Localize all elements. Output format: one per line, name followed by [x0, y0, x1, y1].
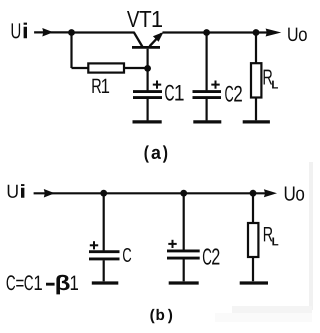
VT1 base bar — [132, 46, 160, 49]
C2 polarity plus sign — [211, 84, 219, 86]
junction dot: C2 node (a) — [203, 29, 210, 36]
caption (a) — [145, 145, 168, 162]
VT1 emitter arrowhead (NPN, pointing out) — [153, 32, 164, 42]
wire: R1 branch vertical from node A — [70, 33, 72, 69]
arrowhead: output Uo (a) — [266, 29, 282, 37]
label C1 — [165, 85, 184, 101]
C2 bottom plate — [193, 96, 222, 99]
junction dot: C node (b) — [100, 190, 107, 197]
label VT1 — [127, 11, 162, 27]
net label Uo (output, circuit b) — [285, 187, 304, 201]
C2(b) bottom lead — [183, 260, 185, 282]
wire: input rail (b) — [34, 192, 266, 194]
capacitor C (polarized, b) — [89, 241, 120, 281]
C top plate — [89, 250, 120, 253]
label C (b) — [123, 248, 131, 262]
wire: C2 top lead (a) — [206, 33, 208, 91]
wire: RL bottom lead (b) — [252, 257, 254, 281]
C2(b) bottom plate — [167, 257, 200, 260]
C1 bottom lead — [147, 99, 149, 120]
wire: R1 right pin to node B — [124, 67, 148, 69]
net label Ui (input, circuit b) — [8, 184, 25, 198]
label C2 (b) — [203, 248, 220, 264]
VT1 collector lead — [134, 32, 143, 46]
ground: RL (b) — [240, 281, 268, 284]
C1 polarity plus sign — [153, 84, 161, 86]
C2(b) top plate — [167, 249, 200, 252]
wire: RL bottom lead (a) — [255, 98, 257, 121]
ground: C2 (b) — [169, 281, 199, 284]
wire: C top lead (b) — [103, 193, 105, 250]
C2 bottom lead — [206, 99, 208, 120]
wire: R1 branch horizontal to R1 left pin — [72, 67, 89, 69]
net label Uo (output, circuit a) — [288, 28, 307, 41]
wire: top rail, node A to VT1 collector — [72, 31, 135, 33]
junction dot: C2 node (b) — [180, 190, 187, 197]
resistor R1 — [88, 63, 124, 72]
ground: C2 (a) — [193, 120, 221, 123]
C bottom lead — [103, 260, 105, 281]
C bottom plate — [89, 257, 120, 260]
capacitor C1 (polarized) — [133, 81, 162, 121]
C1 top plate — [133, 90, 162, 93]
wire: Ui lead-in to node A (a) — [34, 31, 72, 33]
junction dot: node B (R1 / VT1 base / C1) — [144, 65, 151, 72]
VT1 base lead down to node B — [147, 49, 149, 69]
label RL (a) — [264, 70, 278, 89]
wire: C2 top lead (b) — [183, 193, 185, 250]
label R1 — [92, 79, 109, 93]
arrowhead: output Uo (b) — [264, 189, 277, 197]
C2(b) polarity plus sign — [168, 243, 176, 245]
transistor VT1 (NPN) — [132, 32, 164, 68]
VT1 emitter lead — [150, 34, 162, 47]
label RL (b) — [264, 227, 278, 245]
junction dot: RL node (b) — [250, 190, 257, 197]
C polarity plus sign — [90, 244, 98, 246]
caption (b) — [150, 309, 172, 323]
label C2 (a) — [225, 86, 242, 102]
resistor RL (load, b) — [248, 223, 258, 257]
junction dot: node A (Ui / R1 / VT1 collector) — [68, 29, 75, 36]
capacitor C2 (polarized, b) — [167, 240, 200, 281]
C2 top plate — [193, 90, 222, 93]
junction dot: RL node (a) — [253, 29, 260, 36]
ground: C1 — [133, 120, 162, 123]
C1 bottom plate — [133, 96, 162, 99]
net label Ui (input, circuit a) — [12, 23, 27, 39]
ground: RL (a) — [243, 120, 270, 123]
wire: RL top lead (b) — [252, 193, 254, 223]
arrowhead: input signal direction (a) — [42, 28, 53, 37]
wire: top rail, VT1 emitter to output arrow (a) — [163, 31, 269, 33]
wire: RL top lead (a) — [255, 33, 257, 64]
capacitor C2 (polarized, a) — [193, 81, 222, 121]
wire: node B down to C1 top plate — [147, 68, 149, 90]
arrowhead: input signal direction (b) — [44, 189, 55, 198]
resistor RL (load, a) — [251, 63, 261, 97]
formula: C = C1 x beta1 — [7, 275, 78, 295]
ground: C (b) — [92, 281, 119, 284]
